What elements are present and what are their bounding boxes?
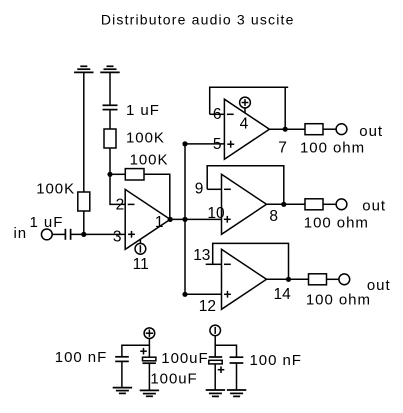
- pin number 12: [199, 298, 216, 315]
- wire U1 output to U3 pin 10: [170, 218, 221, 220]
- value label R4 100 ohm: [300, 140, 365, 157]
- wire R6 to out terminal 3: [327, 278, 339, 280]
- label out 1: [359, 123, 383, 140]
- U3 plus mark: [224, 218, 231, 220]
- junction U3 output: [281, 202, 286, 207]
- svg-text:100 nF: 100 nF: [55, 349, 107, 366]
- op-amp U3: [222, 174, 267, 234]
- pin number 6: [213, 106, 222, 123]
- ground GND2 (top right, inverted): [100, 66, 119, 72]
- power pin V- symbol on U1: [139, 239, 141, 243]
- svg-text:100 ohm: 100 ohm: [300, 140, 365, 157]
- out terminal 1: [336, 124, 347, 135]
- pin number 1: [155, 214, 164, 231]
- wire C1 to R1: [109, 110, 111, 129]
- svg-text:out: out: [359, 123, 383, 140]
- U4 minus mark: [224, 263, 231, 265]
- wire V- to C5: [214, 336, 216, 357]
- capacitor C1 1uF: [103, 105, 118, 109]
- label in: [14, 225, 28, 242]
- U2 plus mark: [227, 143, 234, 145]
- wire R4 to out terminal 1: [323, 128, 336, 130]
- resistor R2 100K: [78, 192, 90, 211]
- value label R6 100 ohm: [306, 291, 371, 308]
- value label R3 100K: [130, 151, 169, 168]
- U1 minus mark: [128, 203, 135, 205]
- pin number 5: [213, 136, 222, 153]
- wire R5 to out terminal 2: [323, 203, 336, 205]
- junction bus top: [182, 141, 187, 146]
- junction U1 output: [168, 217, 173, 222]
- value label R2 100K: [36, 181, 75, 198]
- svg-text:6: 6: [213, 106, 222, 123]
- value label C2 1 uF: [30, 214, 64, 231]
- U2 minus mark: [227, 113, 234, 115]
- wire R3 to op-amp U1 output: [144, 174, 170, 219]
- pin number 2: [116, 196, 125, 213]
- svg-text:3: 3: [113, 229, 122, 246]
- wire U4 output: [267, 278, 309, 280]
- U1 plus mark: [128, 233, 135, 235]
- pin number 3: [113, 229, 122, 246]
- op-amp U1: [125, 189, 170, 249]
- wire branch to C6: [215, 345, 236, 356]
- svg-text:1: 1: [155, 214, 164, 231]
- U3 minus mark: [224, 188, 231, 190]
- wire R1 to node A: [109, 148, 111, 174]
- pin number 9: [195, 181, 204, 198]
- resistor R4 100 ohm: [305, 124, 323, 135]
- label out 2: [362, 197, 386, 214]
- node A junction: [107, 172, 112, 177]
- wire node A to U1 pin 2: [110, 174, 125, 204]
- wire C5 to GND5: [214, 364, 216, 390]
- wire U3 feedback loop: [207, 166, 284, 205]
- wire U2 pin 6: [210, 113, 225, 115]
- resistor R3 100K feedback: [125, 169, 144, 180]
- pin number 4: [240, 115, 249, 132]
- svg-text:13: 13: [193, 247, 210, 264]
- junction bus bottom: [182, 292, 187, 297]
- wire C6 to GND6: [236, 363, 238, 390]
- svg-text:10: 10: [207, 205, 225, 222]
- wire U4 pin 13: [206, 263, 222, 265]
- svg-text:9: 9: [195, 181, 204, 198]
- wire bus to U4 pin 12: [185, 293, 222, 295]
- junction U2 output: [283, 127, 288, 132]
- op-amp U2: [224, 99, 269, 159]
- svg-text:out: out: [362, 197, 386, 214]
- value label R5 100 ohm: [304, 215, 369, 232]
- svg-text:100uF: 100uF: [161, 350, 208, 367]
- svg-text:100 ohm: 100 ohm: [306, 291, 371, 308]
- ground GND3: [113, 388, 132, 394]
- wire node A to R3: [110, 173, 125, 175]
- junction U4 output: [286, 277, 291, 282]
- ground GND1 (top left, inverted): [74, 66, 93, 72]
- resistor R1 100K: [104, 129, 116, 148]
- U4 plus mark: [224, 293, 231, 295]
- svg-text:100K: 100K: [130, 151, 169, 168]
- wire U4 feedback loop: [213, 243, 289, 279]
- svg-text:Distributore audio 3 uscite: Distributore audio 3 uscite: [101, 12, 295, 28]
- value label C6 100 nF: [250, 352, 302, 369]
- capacitor C4 100uF polarized: [140, 350, 147, 352]
- svg-text:2: 2: [116, 196, 125, 213]
- pin number 8: [269, 208, 278, 225]
- V- supply symbol: [210, 325, 221, 336]
- svg-text:100 nF: 100 nF: [250, 352, 302, 369]
- wire U3 output: [267, 203, 306, 205]
- svg-text:1 uF: 1 uF: [30, 214, 64, 231]
- ground GND6: [227, 390, 246, 396]
- out terminal 3: [339, 274, 350, 285]
- value label C1 1 uF: [126, 102, 160, 119]
- capacitor C2 1uF: [65, 229, 70, 240]
- svg-text:14: 14: [274, 286, 292, 303]
- value label C5 100uF: [150, 371, 197, 388]
- svg-text:4: 4: [240, 115, 249, 132]
- wire C3 to GND3: [121, 361, 123, 387]
- capacitor C3 100nF: [115, 357, 129, 362]
- svg-text:12: 12: [199, 298, 216, 315]
- svg-text:7: 7: [278, 139, 287, 156]
- value label C3 100 nF: [55, 349, 107, 366]
- pin number 7: [278, 139, 287, 156]
- resistor R5 100 ohm: [305, 199, 323, 210]
- pin number 10: [207, 205, 225, 222]
- wire input terminal to C2: [52, 233, 65, 235]
- svg-text:100K: 100K: [36, 181, 75, 198]
- pin number 14: [274, 286, 292, 303]
- svg-text:1 uF: 1 uF: [126, 102, 160, 119]
- wire GND1 to R2: [83, 72, 85, 192]
- wire GND2 to C1: [109, 72, 111, 104]
- wire U3 pin 9: [207, 188, 221, 190]
- op-amp U4: [222, 249, 267, 309]
- title text: [101, 12, 295, 28]
- capacitor C5 100uF polarized: [209, 356, 222, 358]
- ground GND4: [140, 390, 159, 396]
- out terminal 2: [336, 199, 347, 210]
- svg-text:100K: 100K: [126, 129, 165, 146]
- wire branch to C3: [122, 345, 149, 356]
- junction input node: [81, 232, 86, 237]
- wire V+ to C4: [148, 338, 150, 357]
- svg-text:11: 11: [133, 256, 149, 273]
- svg-text:8: 8: [269, 208, 278, 225]
- svg-text:100uF: 100uF: [150, 371, 197, 388]
- wire C4 to GND4: [148, 363, 150, 390]
- pin number 13: [193, 247, 210, 264]
- wire U2 output: [269, 128, 305, 130]
- ground GND5: [206, 390, 225, 396]
- wire bus to U2 pin 5: [185, 143, 224, 145]
- wire R2 to input node: [83, 211, 85, 234]
- capacitor C6 100nF: [230, 357, 244, 363]
- wire bus vertical: [184, 144, 186, 294]
- svg-text:5: 5: [213, 136, 222, 153]
- power pin V+ symbol on U2: [240, 97, 251, 108]
- svg-text:100 ohm: 100 ohm: [304, 215, 369, 232]
- V+ supply symbol: [144, 328, 155, 339]
- value label R1 100K: [126, 129, 165, 146]
- input terminal: [41, 229, 52, 240]
- label out 3: [367, 277, 391, 294]
- resistor R6 100 ohm: [309, 274, 327, 285]
- svg-text:in: in: [14, 225, 28, 242]
- pin number 11: [133, 256, 149, 273]
- wire C2 to U1 pin 3: [71, 233, 125, 235]
- wire U2 feedback loop: [210, 87, 289, 114]
- junction bus middle: [182, 217, 187, 222]
- value label C4 100uF: [161, 350, 208, 367]
